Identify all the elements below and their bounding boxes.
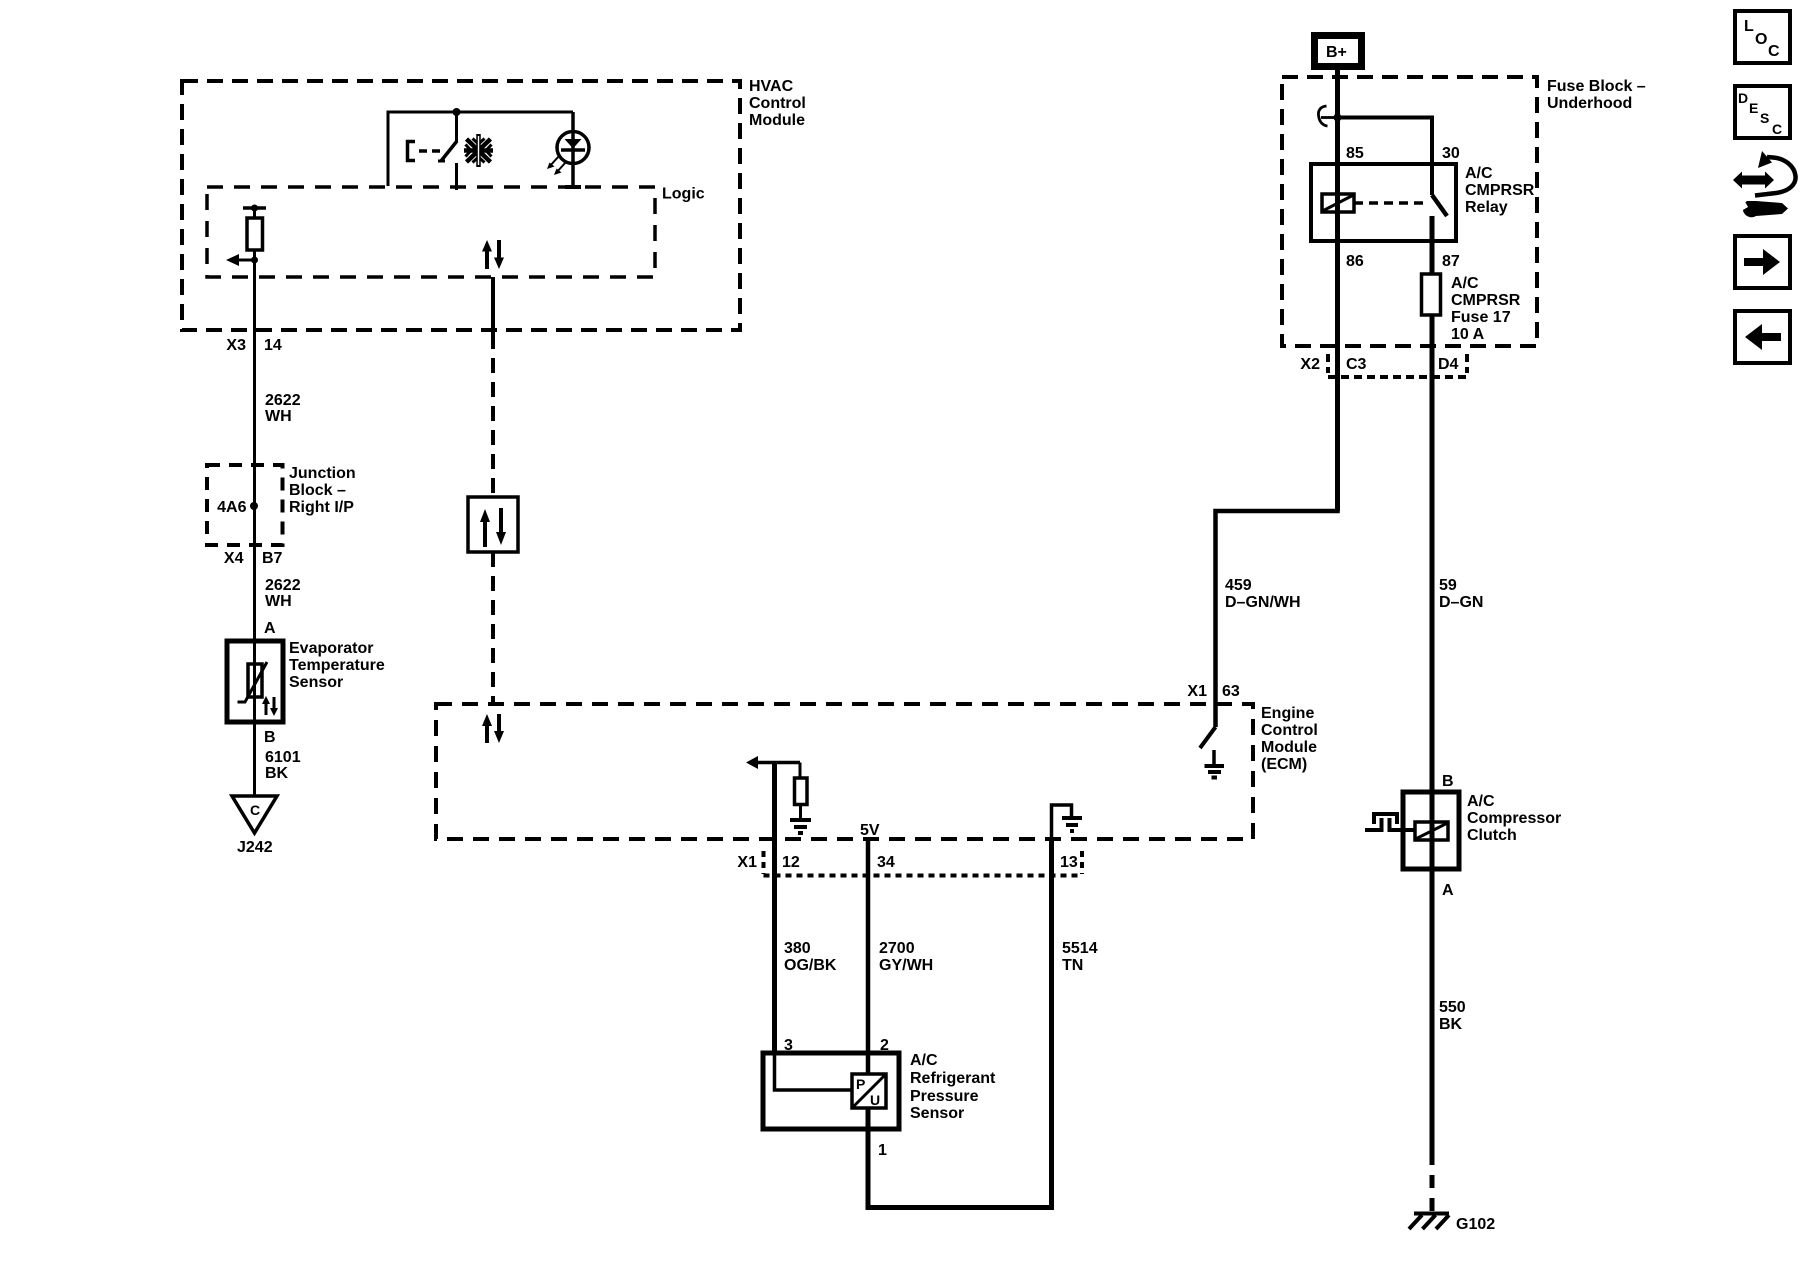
svg-text:(ECM): (ECM): [1261, 756, 1307, 773]
ECM A/C request switch: [1200, 727, 1216, 748]
relay contact blade: [1432, 195, 1447, 216]
wire 459 D-GN/WH: [1216, 346, 1338, 727]
svg-text:Temperature: Temperature: [289, 657, 385, 674]
svg-text:BK: BK: [265, 765, 289, 782]
Fuse Block Underhood dashed box: [1282, 77, 1537, 346]
relay coil: [1322, 194, 1354, 212]
svg-text:Fuse Block –: Fuse Block –: [1547, 78, 1646, 95]
wire label 380 OG/BK: [784, 940, 837, 974]
snowflake icon: [464, 134, 493, 167]
wire label 459 D-GN/WH: [1225, 577, 1301, 611]
svg-text:TN: TN: [1062, 957, 1083, 974]
wire label 5514 TN: [1062, 940, 1098, 974]
ECM sensor input arrow: [746, 756, 800, 769]
svg-text:CMPRSR: CMPRSR: [1465, 182, 1535, 199]
Logic dashed box: [207, 187, 655, 277]
svg-text:Block –: Block –: [289, 482, 346, 499]
svg-text:U: U: [870, 1092, 880, 1108]
wire 5514 TN: [868, 841, 1052, 1208]
wire from contact down through fuse: [1430, 216, 1435, 1152]
wire label 59 D-GN: [1439, 577, 1483, 611]
svg-text:A/C: A/C: [1467, 793, 1495, 810]
X2 connector labels: [1300, 356, 1458, 373]
wire label 6101 BK: [265, 749, 301, 782]
svg-text:2700: 2700: [879, 940, 915, 957]
svg-text:X1: X1: [1187, 683, 1207, 700]
svg-text:380: 380: [784, 940, 811, 957]
svg-text:Module: Module: [749, 112, 805, 129]
X1 connector dotted box: [764, 851, 1083, 876]
wire 2700 GY/WH: [866, 841, 871, 1074]
LOC navigation box: [1735, 11, 1790, 63]
forward arrow box: [1735, 236, 1790, 288]
A/C Compressor Clutch box: [1403, 792, 1459, 869]
svg-text:Engine: Engine: [1261, 705, 1314, 722]
wire label 2622 WH: [265, 392, 301, 425]
wire label 550 BK: [1439, 999, 1466, 1033]
svg-text:6101: 6101: [265, 749, 301, 766]
svg-text:B: B: [1442, 773, 1454, 790]
splice ground triangle C / J242: [232, 796, 277, 856]
relay label: [1465, 165, 1535, 216]
thermistor symbol: [238, 662, 268, 702]
svg-text:Control: Control: [1261, 722, 1318, 739]
A/C CMPRSR Fuse 17: [1422, 274, 1441, 315]
svg-text:459: 459: [1225, 577, 1252, 594]
fuse label: [1451, 275, 1521, 343]
svg-text:A: A: [264, 620, 276, 637]
svg-text:C: C: [1772, 121, 1782, 137]
svg-text:A/C: A/C: [1451, 275, 1479, 292]
svg-text:2622: 2622: [265, 577, 301, 594]
back arrow box: [1735, 311, 1790, 363]
wire label 2700 GY/WH: [879, 940, 933, 974]
Engine Control Module dashed box: [436, 704, 1253, 839]
A/C Refrigerant Pressure Sensor label: [910, 1052, 996, 1122]
svg-text:Control: Control: [749, 95, 806, 112]
node junction dot on rail: [453, 108, 461, 116]
LED indicator: [547, 112, 589, 187]
serial data wire dashed to splice box: [491, 334, 495, 497]
svg-text:J242: J242: [237, 839, 273, 856]
wire X3-14 down from HVAC: [253, 260, 256, 796]
svg-text:12: 12: [782, 854, 800, 871]
svg-text:C: C: [250, 802, 260, 818]
svg-text:Right I/P: Right I/P: [289, 499, 354, 516]
Fuse Block label: [1547, 78, 1646, 112]
A/C CMPRSR Relay box: [1311, 164, 1456, 241]
svg-text:Sensor: Sensor: [289, 674, 343, 691]
svg-text:2622: 2622: [265, 392, 301, 409]
chassis ground G102: [1409, 1214, 1449, 1230]
svg-text:D–GN: D–GN: [1439, 594, 1483, 611]
svg-text:4A6: 4A6: [217, 499, 246, 516]
svg-text:C: C: [1768, 43, 1780, 60]
clutch coil: [1415, 822, 1448, 840]
svg-text:X1: X1: [737, 854, 757, 871]
svg-text:A: A: [1442, 882, 1454, 899]
A/C Refrigerant Pressure Sensor box: [763, 1053, 899, 1129]
ECM bidirectional arrows: [482, 714, 504, 743]
svg-text:Evaporator: Evaporator: [289, 640, 373, 657]
svg-text:P: P: [856, 1076, 865, 1092]
svg-text:550: 550: [1439, 999, 1466, 1016]
ECM internal ground for pin 13: [1052, 805, 1083, 841]
Engine Control Module label: [1261, 705, 1318, 773]
svg-text:5514: 5514: [1062, 940, 1098, 957]
boxed bidirectional arrows (data link): [468, 497, 518, 552]
svg-text:WH: WH: [265, 408, 292, 425]
svg-text:13: 13: [1060, 854, 1078, 871]
pressure transducer P/U symbol: [775, 1053, 887, 1108]
DESC navigation box: [1735, 86, 1790, 138]
svg-text:30: 30: [1442, 145, 1460, 162]
svg-text:Clutch: Clutch: [1467, 827, 1517, 844]
svg-text:WH: WH: [265, 593, 292, 610]
svg-text:B: B: [264, 729, 276, 746]
X1 connector labels: [737, 854, 1077, 871]
svg-text:C3: C3: [1346, 356, 1367, 373]
svg-text:B7: B7: [262, 550, 283, 567]
svg-text:GY/WH: GY/WH: [879, 957, 933, 974]
Junction Block label: [289, 465, 356, 516]
pull-up resistor in logic: [243, 205, 266, 261]
wire label 2622 WH: [265, 577, 301, 610]
A/C request switch: [408, 112, 458, 190]
X2 connector dotted box: [1328, 354, 1467, 377]
clutch mechanical linkage symbol: [1365, 814, 1415, 830]
main B+ wire down through fuse block: [1335, 67, 1340, 511]
svg-text:1: 1: [878, 1142, 887, 1159]
svg-text:63: 63: [1222, 683, 1240, 700]
svg-text:BK: BK: [1439, 1016, 1463, 1033]
svg-text:X2: X2: [1300, 356, 1320, 373]
node 4A6 dot: [250, 502, 258, 510]
logic bidirectional arrows: [482, 240, 504, 269]
svg-text:S: S: [1760, 110, 1769, 126]
svg-text:10 A: 10 A: [1451, 326, 1485, 343]
svg-text:Module: Module: [1261, 739, 1317, 756]
relay coil-contact dashed link: [1354, 201, 1429, 205]
ECM switch ground: [1205, 750, 1225, 778]
svg-text:CMPRSR: CMPRSR: [1451, 292, 1521, 309]
node splice dot: [1334, 114, 1342, 122]
svg-text:Refrigerant: Refrigerant: [910, 1070, 996, 1087]
svg-text:OG/BK: OG/BK: [784, 957, 837, 974]
B+ battery feed box: [1315, 36, 1362, 67]
svg-text:D4: D4: [1438, 356, 1459, 373]
ECM pull-up resistor: [795, 763, 808, 819]
svg-text:X3: X3: [226, 337, 246, 354]
svg-text:B+: B+: [1326, 44, 1347, 61]
A/C Compressor Clutch label: [1467, 793, 1561, 844]
svg-text:E: E: [1749, 100, 1758, 116]
serial data wire dashed to ECM: [491, 552, 495, 704]
svg-text:O: O: [1755, 31, 1767, 48]
serial data wire from logic (solid part): [491, 277, 495, 334]
svg-text:59: 59: [1439, 577, 1457, 594]
svg-text:HVAC: HVAC: [749, 78, 794, 95]
svg-text:D: D: [1738, 90, 1748, 106]
svg-text:34: 34: [877, 854, 895, 871]
HVAC Control Module dashed box: [182, 81, 740, 330]
svg-text:Pressure: Pressure: [910, 1088, 979, 1105]
svg-text:Underhood: Underhood: [1547, 95, 1632, 112]
svg-text:Logic: Logic: [662, 186, 705, 203]
Evaporator Temperature Sensor box: [227, 641, 283, 722]
signal arrow to left: [226, 254, 258, 266]
svg-text:G102: G102: [1456, 1216, 1495, 1233]
ECM internal ground under resistor: [790, 820, 811, 833]
schematic navigation icon (arrows and wrench): [1733, 151, 1796, 217]
Evaporator Temperature Sensor label: [289, 640, 385, 691]
svg-text:14: 14: [264, 337, 282, 354]
inner solid box (switch/LED rail): [388, 112, 573, 186]
wire to relay pin 30: [1338, 118, 1433, 196]
sensor small arrows: [262, 696, 278, 716]
dashed wire to ground: [1430, 1152, 1435, 1213]
svg-text:Compressor: Compressor: [1467, 810, 1561, 827]
svg-text:86: 86: [1346, 253, 1364, 270]
svg-text:87: 87: [1442, 253, 1460, 270]
X1 pin 63 labels: [1187, 683, 1239, 700]
HVAC Control Module label: [749, 78, 806, 129]
svg-text:A/C: A/C: [1465, 165, 1493, 182]
svg-text:Sensor: Sensor: [910, 1105, 964, 1122]
svg-text:Relay: Relay: [1465, 199, 1508, 216]
svg-text:X4: X4: [224, 550, 244, 567]
svg-text:L: L: [1744, 18, 1754, 35]
Junction Block dashed box: [207, 465, 283, 545]
svg-text:5V: 5V: [860, 822, 880, 839]
svg-text:A/C: A/C: [910, 1052, 938, 1069]
svg-text:85: 85: [1346, 145, 1364, 162]
svg-text:Fuse 17: Fuse 17: [1451, 309, 1511, 326]
splice curl symbol: [1318, 106, 1336, 126]
svg-text:Junction: Junction: [289, 465, 356, 482]
svg-text:D–GN/WH: D–GN/WH: [1225, 594, 1301, 611]
wire 380 OG/BK: [772, 763, 777, 1054]
